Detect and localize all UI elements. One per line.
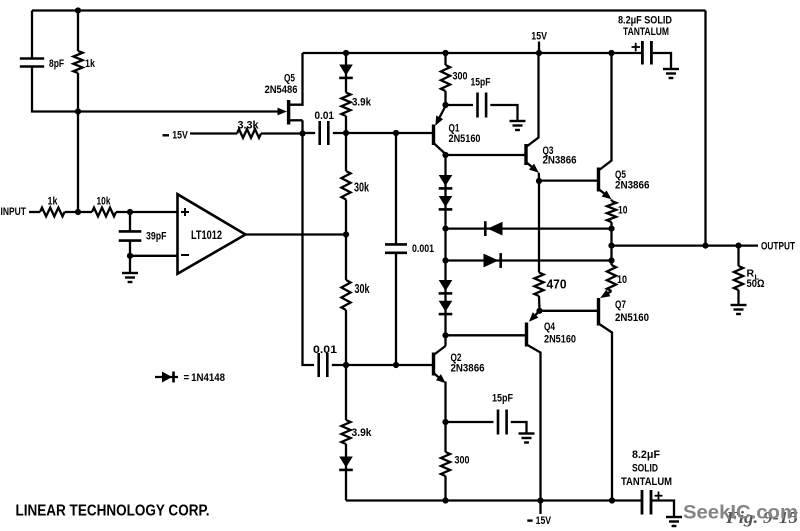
wire: JFET source lead	[301, 120, 303, 133]
diode D2	[439, 175, 453, 188]
resistor 3.3k	[237, 120, 261, 138]
wire: Q1 collector to diode line	[444, 155, 446, 229]
node: lower clamp junction	[442, 257, 448, 263]
node: rail/3.9k junction	[343, 50, 349, 56]
wire: upper 0.01 to Q1 base	[333, 132, 432, 134]
svg-text:3.9k: 3.9k	[352, 97, 372, 109]
svg-text:470: 470	[547, 277, 567, 292]
wire: 539 column	[538, 181, 540, 273]
wire: 346 column to 30k	[345, 133, 347, 171]
capacitor 8.2uF solid tantalum (top)	[618, 15, 672, 65]
resistor 470	[534, 273, 566, 297]
ground (upper 15pF)	[510, 121, 526, 130]
svg-text:= 1N4148: = 1N4148	[184, 372, 226, 384]
svg-text:3.3k: 3.3k	[238, 120, 260, 132]
svg-text:0.01: 0.01	[315, 110, 335, 122]
svg-text:0.001: 0.001	[412, 243, 434, 255]
node: Q2 collector junction	[442, 332, 448, 338]
resistor 300 (lower)	[441, 452, 470, 501]
wire: to op-amp - input	[130, 255, 178, 257]
capacitor 15pF (lower)	[446, 393, 527, 435]
transistor Q3 2N3866 (NPN)	[526, 53, 577, 173]
wire: op-amp output	[246, 233, 347, 235]
wire: 30k to output node	[345, 200, 347, 235]
svg-text:15V: 15V	[172, 130, 188, 142]
node: input junction	[75, 209, 81, 215]
wire: upper clamp line	[446, 227, 612, 229]
node: 3.9k bottom junction	[343, 130, 349, 136]
node: 0.001 bottom junction	[393, 362, 399, 368]
wire: Q3 emitter lead	[538, 173, 541, 181]
node: inverting input junction	[127, 253, 133, 259]
node: rail/Q5 junction	[608, 50, 614, 56]
svg-text:2N5486: 2N5486	[265, 84, 298, 96]
wire: 15V rail	[303, 52, 642, 54]
svg-text:2N5160: 2N5160	[544, 334, 576, 346]
capacitor 0.01 (upper)	[315, 110, 335, 145]
svg-text:39pF: 39pF	[146, 231, 167, 243]
transistor Q5 2N3866 (NPN, right)	[599, 53, 650, 199]
op-amp U1 LT1012	[178, 194, 246, 274]
wire: 3.3k to source node	[261, 132, 303, 134]
svg-text:SeekIC.com: SeekIC.com	[683, 503, 798, 524]
diode D6 (above -15V rail)	[339, 457, 353, 470]
resistor 10 (lower)	[607, 261, 627, 292]
capacitor 0.001	[385, 133, 434, 365]
svg-text:INPUT: INPUT	[1, 206, 27, 218]
node: 0.001 top junction	[393, 130, 399, 136]
node: feedback junction	[75, 108, 81, 114]
wire: top feedback rail	[32, 9, 706, 11]
ground (lower 15pF)	[519, 434, 535, 443]
node: lower clamp right junction	[608, 257, 614, 263]
ground (bottom tantalum)	[666, 517, 682, 526]
resistor 30k (upper)	[341, 171, 369, 200]
wire: 8pF bottom lead	[32, 67, 78, 112]
svg-text:30k: 30k	[355, 282, 370, 296]
wire: input riser	[77, 112, 79, 213]
wire: clamp to output line	[610, 229, 612, 261]
svg-text:Q5: Q5	[284, 73, 295, 85]
resistor 10 (upper)	[607, 199, 628, 228]
resistor 1k (feedback)	[73, 11, 95, 112]
node: lower 0.01 junction	[343, 362, 349, 368]
svg-text:OUTPUT: OUTPUT	[761, 241, 795, 253]
node: JFET source junction	[299, 130, 305, 136]
transistor Q5 2N5486 (JFET)	[265, 73, 303, 125]
wire: 346 column lower segment	[345, 365, 347, 420]
svg-text:8.2μF SOLID: 8.2μF SOLID	[618, 15, 672, 27]
diode D1 (under 15V rail)	[339, 65, 353, 78]
capacitor 8.2uF solid tantalum (bottom)	[621, 449, 672, 515]
wire: feedback vertical from output to top rail	[704, 11, 706, 246]
node: output line junction	[608, 243, 614, 249]
watermark SeekIC.com	[683, 503, 798, 524]
svg-text:2N3866: 2N3866	[615, 180, 650, 192]
svg-text:8pF: 8pF	[49, 58, 64, 70]
svg-text:Q7: Q7	[615, 299, 626, 311]
legend diode 1N4148	[155, 372, 225, 385]
node: RL/output junction	[735, 243, 741, 249]
label LINEAR TECHNOLOGY CORP.	[16, 503, 210, 520]
svg-text:SOLID: SOLID	[632, 463, 658, 475]
svg-text:0.01: 0.01	[313, 344, 337, 356]
wire: Q4 base line	[446, 334, 526, 336]
node: lower 15pF junction	[442, 419, 448, 425]
watermark Fig number	[725, 508, 798, 527]
svg-text:LT1012: LT1012	[191, 230, 222, 242]
svg-text:8.2μF: 8.2μF	[632, 449, 660, 461]
node: lower 0.01 / 3.9k junction (dup)	[343, 362, 349, 368]
label 15V	[531, 31, 547, 54]
transistor Q4 2N5160 (PNP)	[527, 311, 577, 501]
svg-text:300: 300	[453, 71, 468, 83]
capacitor 8pF	[20, 58, 64, 70]
wire: Q2 emitter lead	[444, 382, 446, 453]
svg-text:Q4: Q4	[544, 321, 556, 333]
label INPUT	[1, 206, 27, 218]
svg-text:2N3866: 2N3866	[451, 363, 485, 375]
diode D7	[439, 280, 453, 293]
wire: clamp mid segment	[444, 229, 446, 261]
resistor 3.9k (lower)	[341, 420, 372, 444]
wire: diode chain lower	[444, 261, 446, 336]
node: op-amp + input junction	[127, 209, 133, 215]
node: Q7 collector junction	[609, 497, 615, 503]
svg-text:30k: 30k	[354, 181, 369, 195]
svg-text:10: 10	[617, 274, 627, 286]
node: 470 bottom junction	[536, 308, 542, 314]
node: Q1 collector junction	[442, 152, 448, 158]
wire: JFET drain riser	[290, 53, 303, 105]
wire: output node to 30k lower	[345, 235, 347, 281]
svg-text:LINEAR TECHNOLOGY CORP.: LINEAR TECHNOLOGY CORP.	[16, 503, 210, 520]
svg-text:15pF: 15pF	[492, 393, 513, 405]
label OUTPUT	[761, 241, 795, 253]
resistor 30k (lower)	[341, 280, 369, 310]
diode D8	[439, 301, 453, 314]
svg-text:300: 300	[455, 455, 470, 467]
svg-text:15V: 15V	[531, 31, 547, 43]
svg-text:2N3866: 2N3866	[543, 155, 577, 167]
wire: top tantalum to ground	[653, 53, 671, 69]
node: 300 bottom junction	[442, 497, 448, 503]
wire: Q7 base line	[540, 310, 598, 312]
wire: Q3 base line	[446, 154, 525, 156]
capacitor 15pF (upper)	[446, 77, 518, 121]
resistor 10k	[92, 196, 116, 217]
node: Q3 emitter junction	[536, 178, 542, 184]
capacitor 0.01 (lower)	[313, 344, 337, 377]
diode D5 (clamp, points right)	[484, 253, 501, 268]
transistor Q7 2N5160 (PNP)	[599, 290, 650, 501]
node: Q1 emitter junction	[442, 102, 448, 108]
wire: 39pF bottom lead	[129, 241, 131, 256]
ground (RL)	[731, 305, 747, 314]
svg-text:3.9k: 3.9k	[352, 427, 373, 439]
svg-text:15pF: 15pF	[471, 77, 491, 89]
wire: Q5 base line	[539, 179, 597, 181]
wire: 470 bottom lead	[538, 296, 541, 311]
label -15V (left)	[163, 130, 189, 142]
node: top rail / 1k junction	[75, 7, 81, 13]
wire: gate feedback line	[78, 108, 287, 116]
svg-text:2N5160: 2N5160	[615, 312, 649, 324]
wire: 39pF top lead	[129, 212, 131, 231]
svg-text:50Ω: 50Ω	[747, 278, 765, 290]
ground (top tantalum)	[663, 69, 679, 78]
capacitor 39pF	[119, 231, 167, 243]
wire: node to upper 0.01	[303, 132, 316, 134]
resistor 300 (upper)	[441, 53, 468, 105]
transistor Q2 2N3866 (NPN)	[434, 335, 485, 383]
wire: -15V stub	[190, 132, 237, 134]
node: upper clamp right junction	[608, 226, 614, 232]
resistor 3.9k (upper)	[341, 93, 371, 134]
wire: output line	[612, 244, 759, 246]
wire: bottom tantalum to ground	[651, 501, 674, 517]
wire: 3.9k lower to rail corner	[345, 444, 347, 501]
svg-text:1k: 1k	[48, 196, 59, 208]
wire: input stub	[29, 211, 40, 213]
svg-text:10: 10	[618, 205, 628, 217]
diode D4 (clamp, points left)	[485, 221, 502, 236]
wire: -15V bottom rail	[346, 499, 642, 501]
diode D3	[439, 196, 453, 209]
svg-text:1k: 1k	[85, 58, 96, 70]
svg-text:2N5160: 2N5160	[449, 133, 481, 145]
wire: lower clamp line	[446, 259, 612, 261]
ground (below 39pF)	[122, 256, 138, 282]
wire: 1k to 10k	[65, 211, 93, 213]
wire: 30k lower to 0.01 node	[345, 310, 347, 365]
node: rail/300 junction	[442, 50, 448, 56]
wire: 10k to op-amp	[116, 211, 178, 213]
svg-text:TANTALUM: TANTALUM	[623, 26, 669, 38]
node: upper clamp junction	[442, 226, 448, 232]
node: output of op-amp junction	[343, 231, 349, 237]
transistor Q1 2N5160 (PNP)	[434, 106, 481, 154]
node: rail/Q3 junction	[536, 50, 542, 56]
node: Q4 collector junction	[537, 497, 543, 503]
resistor 1k (input)	[40, 196, 65, 217]
label -15V (bottom)	[527, 501, 551, 528]
svg-text:10k: 10k	[97, 196, 112, 208]
wire: source node to lower 0.01	[303, 134, 315, 366]
svg-text:15V: 15V	[536, 515, 552, 527]
node: feedback/output junction	[702, 243, 708, 249]
wire: 346 column upper segment	[345, 53, 347, 93]
wire: 8pF top lead	[31, 11, 33, 59]
wire: lower 0.01 to Q2 base	[332, 364, 432, 366]
resistor RL 50ohm	[734, 246, 765, 305]
svg-text:TANTALUM: TANTALUM	[621, 476, 672, 488]
